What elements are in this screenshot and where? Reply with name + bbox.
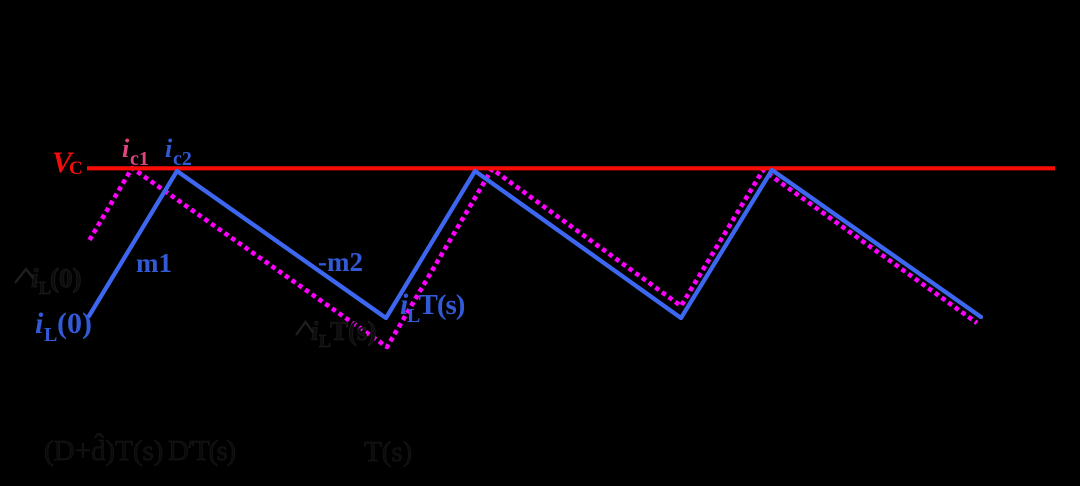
blue steady-state inductor-current waveform: [89, 170, 981, 318]
svg-text:(0): (0): [57, 307, 92, 340]
svg-text:i: i: [35, 307, 44, 340]
svg-text:i: i: [31, 263, 39, 293]
svg-text:-m2: -m2: [318, 247, 363, 277]
magenta perturbed inductor-current waveform (dotted): [90, 168, 978, 347]
svg-text:C: C: [69, 158, 83, 179]
svg-text:T(s): T(s): [419, 289, 465, 321]
svg-text:i: i: [311, 316, 319, 346]
svg-text:L: L: [44, 324, 57, 346]
svg-text:T(s): T(s): [364, 436, 412, 468]
svg-text:D′T(s): D′T(s): [168, 435, 235, 467]
dark label hat-iL T(s): [296, 322, 315, 335]
dark label hat-iL(0): [15, 269, 37, 283]
svg-text:i: i: [165, 134, 173, 163]
svg-text:c2: c2: [173, 148, 192, 170]
svg-text:(D+d̂)T(s): (D+d̂)T(s): [44, 432, 163, 467]
svg-text:i: i: [122, 134, 130, 163]
svg-text:c1: c1: [130, 148, 149, 170]
svg-text:(0): (0): [50, 263, 81, 293]
svg-text:m1: m1: [136, 248, 172, 278]
svg-text:T(s): T(s): [330, 316, 377, 346]
red control-voltage line Vc: [87, 166, 1055, 170]
